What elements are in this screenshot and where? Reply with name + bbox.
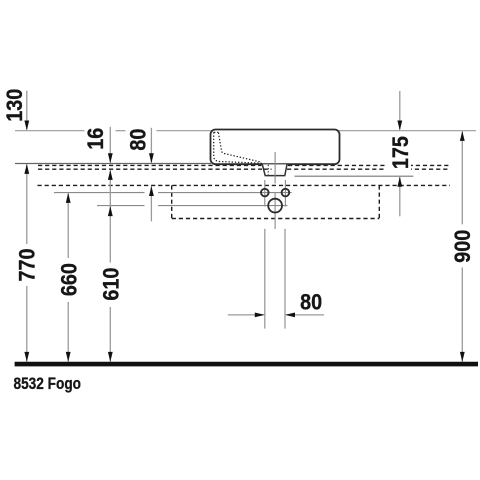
svg-text:660: 660	[58, 263, 82, 296]
svg-text:8532 Fogo: 8532 Fogo	[14, 374, 82, 393]
svg-text:610: 610	[99, 268, 123, 301]
svg-text:80: 80	[126, 129, 150, 151]
svg-text:16: 16	[84, 128, 108, 150]
svg-text:175: 175	[389, 136, 413, 169]
svg-text:80: 80	[300, 290, 322, 314]
svg-text:770: 770	[15, 248, 39, 281]
svg-text:900: 900	[451, 230, 475, 263]
svg-text:130: 130	[3, 89, 27, 122]
